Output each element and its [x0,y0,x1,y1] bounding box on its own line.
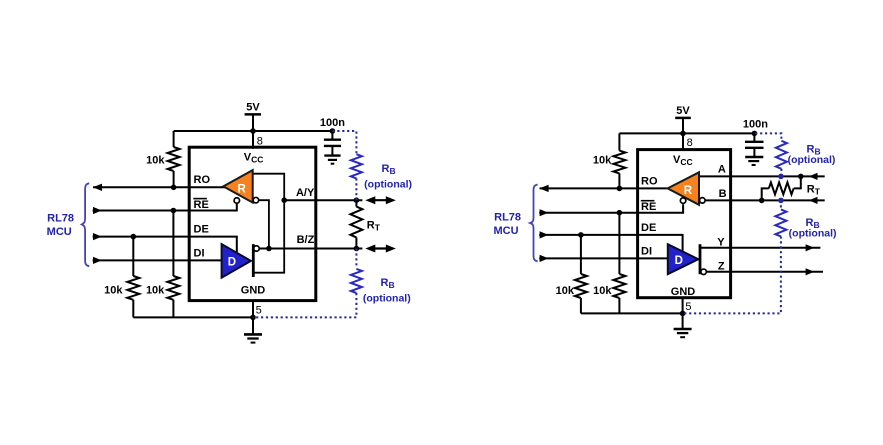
wire DE (left) [93,237,237,254]
svg-text:10k: 10k [593,285,612,297]
brace MCU signals (left) [82,183,89,266]
resistor RB optional top (left) [332,131,362,200]
svg-text:R: R [237,184,246,196]
junction RT / B line (right) [759,198,765,204]
wire A/Y (left) [284,199,362,201]
wire RO (right) [540,187,672,189]
svg-text:5: 5 [685,301,691,313]
arrowhead RO toward MCU (left) [93,184,102,191]
junction B/Z / RT (left) [354,246,360,252]
bubble receiver B input (left) [253,197,259,203]
value label RT (right) [807,183,821,196]
wire DE (right) [539,235,682,253]
wire A (right) [699,175,825,177]
value label RB top (left) [364,163,412,190]
junction A/Y / RT (left) [354,197,360,203]
pin number 8 (right) [687,137,693,149]
resistor 10k pull-up on RO (right) [613,133,625,188]
junction B/Z internal (left) [266,246,272,252]
svg-text:10k: 10k [146,155,165,167]
ground (right main) [674,313,692,337]
svg-text:RO: RO [641,175,658,187]
svg-text:DI: DI [641,246,652,258]
value label 10k (left DE pull-down) [104,285,123,297]
junction RO / pull-up (right) [617,186,623,192]
driver D (left) [222,244,254,278]
pin label A/Y (left) [296,187,315,199]
svg-text:D: D [228,257,236,269]
svg-text:Y: Y [717,236,725,248]
wire RE (left) [93,204,237,211]
svg-text:8: 8 [687,137,693,149]
junction RO / pull-up (left) [171,185,177,191]
arrowhead DI from MCU (right) [540,255,549,262]
pin number 5 (right) [685,301,691,313]
svg-text:RB: RB [381,277,395,290]
junction 5V rail / pin 8 (right) [680,131,686,137]
value label RB bottom (left) [363,277,411,305]
pin label A (right) [718,164,726,176]
pin label Y (right) [717,236,725,248]
svg-text:5V: 5V [676,105,690,117]
pin label B (right) [719,188,727,200]
wire B (right) [705,199,824,201]
resistor RB optional bottom (left) [253,249,362,318]
value label 10k (right pull-up) [593,155,612,167]
junction cap / rail (left) [330,128,336,134]
svg-text:5: 5 [256,305,262,317]
pin label DI (right) [641,246,652,258]
resistor RB optional bottom (right) [683,200,787,313]
pin 8 wire (right) [682,133,684,151]
pin label RE (left) [193,199,208,211]
bus arrow A/Y (left) [365,196,396,204]
wire receiver B input (left) [259,200,269,248]
svg-text:VCC: VCC [673,154,693,167]
wire RE (right) [539,204,683,213]
junction RT / A line (right) [798,174,804,180]
pin number 8 (left) [257,135,263,147]
bubble driver Z output (right) [701,269,707,275]
svg-text:RO: RO [194,174,211,186]
label VCC (right) [673,154,693,167]
svg-text:8: 8 [257,135,263,147]
arrowhead RE from MCU (right) [540,209,549,216]
pin label RO (right) [641,175,658,187]
brace MCU signals (right) [530,185,537,262]
svg-text:R: R [684,185,693,197]
resistor 10k pull-down on DE (right) [575,235,587,314]
receiver R (left) [223,170,252,203]
svg-text:DE: DE [194,223,209,235]
svg-text:A: A [718,164,726,176]
pin label B/Z (left) [297,234,315,246]
wire receiver A input (left) [253,174,285,201]
svg-text:100n: 100n [320,117,345,129]
svg-text:RL78: RL78 [494,211,521,223]
pin label Z (right) [718,261,725,273]
svg-text:10k: 10k [556,285,575,297]
wire driver Y output (left) [253,200,284,273]
wire DI (left) [93,259,223,261]
value label 10k (left RE pull-down) [146,285,165,297]
arrowhead DI from MCU (left) [93,257,102,264]
svg-text:GND: GND [241,285,266,297]
resistor 10k pull-up on RO (left) [168,131,180,187]
ground (left cap) [324,156,340,164]
pin label DE (right) [641,222,656,234]
capacitor 100n (right) [743,118,768,156]
label GND (right) [671,286,696,298]
value label 10k (right DE pull-down) [556,285,575,297]
svg-text:RB: RB [382,163,396,176]
bus arrow B/Z (left) [365,245,396,253]
ground (left main) [244,317,262,342]
wire 5V rail (left) [174,130,333,132]
pin label RO (left) [194,174,211,186]
arrowhead RO toward MCU (right) [539,185,548,192]
capacitor 100n (left) [320,117,345,155]
pin label RE (right) [641,201,656,213]
pin 8 wire (left) [252,131,254,149]
junction 5V rail / pin 8 (left) [250,128,256,134]
svg-text:(optional): (optional) [789,228,837,240]
svg-text:B/Z: B/Z [297,234,315,246]
svg-text:10k: 10k [104,285,123,297]
arrowhead DE from MCU (right) [540,231,549,238]
svg-text:(optional): (optional) [788,154,836,166]
arrowhead DE from MCU (left) [93,233,102,240]
pin label DI (left) [194,247,205,259]
arrowhead B into receiver (right) [809,197,818,204]
driver D (right) [668,244,700,274]
pin 5 wire (right) [682,298,684,314]
wire DI (right) [539,257,669,259]
label RL78 MCU (left) [47,212,74,238]
junction RB / A line (right) [778,174,784,180]
junction pin5/ground (left) [250,315,256,321]
bubble receiver enable (left) [234,198,240,204]
value label RB top (right) [788,143,836,166]
wire ground rail (right) [581,312,683,314]
svg-text:MCU: MCU [47,226,72,238]
svg-text:DI: DI [194,247,205,259]
arrowhead A into receiver (right) [809,173,818,180]
receiver R (right) [668,172,699,205]
arrowhead RE from MCU (left) [93,207,102,214]
value label RT (left) [367,220,381,233]
svg-text:(optional): (optional) [363,293,411,305]
svg-text:(optional): (optional) [364,178,412,190]
svg-text:A/Y: A/Y [296,187,315,199]
pin 5 wire (left) [252,301,254,318]
junction DE / pull-down (right) [578,232,584,238]
IC transceiver box (left) [189,147,316,300]
svg-text:RT: RT [367,220,381,233]
value label 10k (left pull-up) [146,155,165,167]
svg-text:RE: RE [641,201,656,213]
svg-text:DE: DE [641,222,656,234]
wire Z (right) [707,271,823,273]
resistor 10k pull-down on DE (left) [127,237,139,318]
junction pin5/ground (right) [680,311,686,317]
pin number 5 (left) [256,305,262,317]
svg-text:GND: GND [671,286,696,298]
svg-text:MCU: MCU [493,225,518,237]
value label 10k (right RE pull-down) [593,285,612,297]
label GND (left) [241,285,266,297]
resistor RT termination (left) [350,200,362,248]
svg-text:10k: 10k [146,285,165,297]
junction RE / pull-down (right) [617,210,623,216]
svg-text:RL78: RL78 [47,212,74,224]
resistor 10k pull-down on RE (left) [167,211,179,318]
svg-text:VCC: VCC [244,151,264,164]
arrowhead Y out of driver (right) [806,244,815,251]
wire RO (left) [93,186,228,188]
svg-text:100n: 100n [743,118,768,130]
label RL78 MCU (right) [493,211,521,237]
ground (right cap) [745,157,763,165]
junction DE / pull-down (left) [131,234,137,240]
svg-text:5V: 5V [246,102,260,114]
arrowhead Z out of driver (right) [806,268,815,275]
junction A/Y internal (left) [281,197,287,203]
label VCC (left) [244,151,264,164]
svg-text:RT: RT [807,183,821,196]
junction RB / B line (right) [778,198,784,204]
bubble driver Z output (left) [254,246,260,252]
supply 5V (left) [245,102,261,132]
svg-text:D: D [675,255,683,267]
svg-text:Z: Z [718,261,725,273]
supply 5V (right) [675,105,691,133]
resistor 10k pull-down on RE (right) [613,213,625,314]
resistor RT termination (right) [762,176,801,200]
junction RE / pull-down (left) [171,208,177,214]
wire B/Z (left) [259,248,362,250]
bubble receiver B input (right) [700,198,706,204]
bubble receiver enable (right) [680,198,686,204]
value label RB bottom (right) [789,217,837,240]
wire ground rail (left) [133,316,253,318]
resistor RB optional top (right) [755,133,787,176]
IC transceiver box (right) [638,150,731,298]
wire Y (right) [700,247,820,249]
pin label DE (left) [194,223,209,235]
svg-text:B: B [719,188,727,200]
svg-text:10k: 10k [593,155,612,167]
svg-text:RE: RE [194,199,209,211]
wire 5V rail (right) [619,132,755,134]
junction cap / rail (right) [752,131,758,137]
